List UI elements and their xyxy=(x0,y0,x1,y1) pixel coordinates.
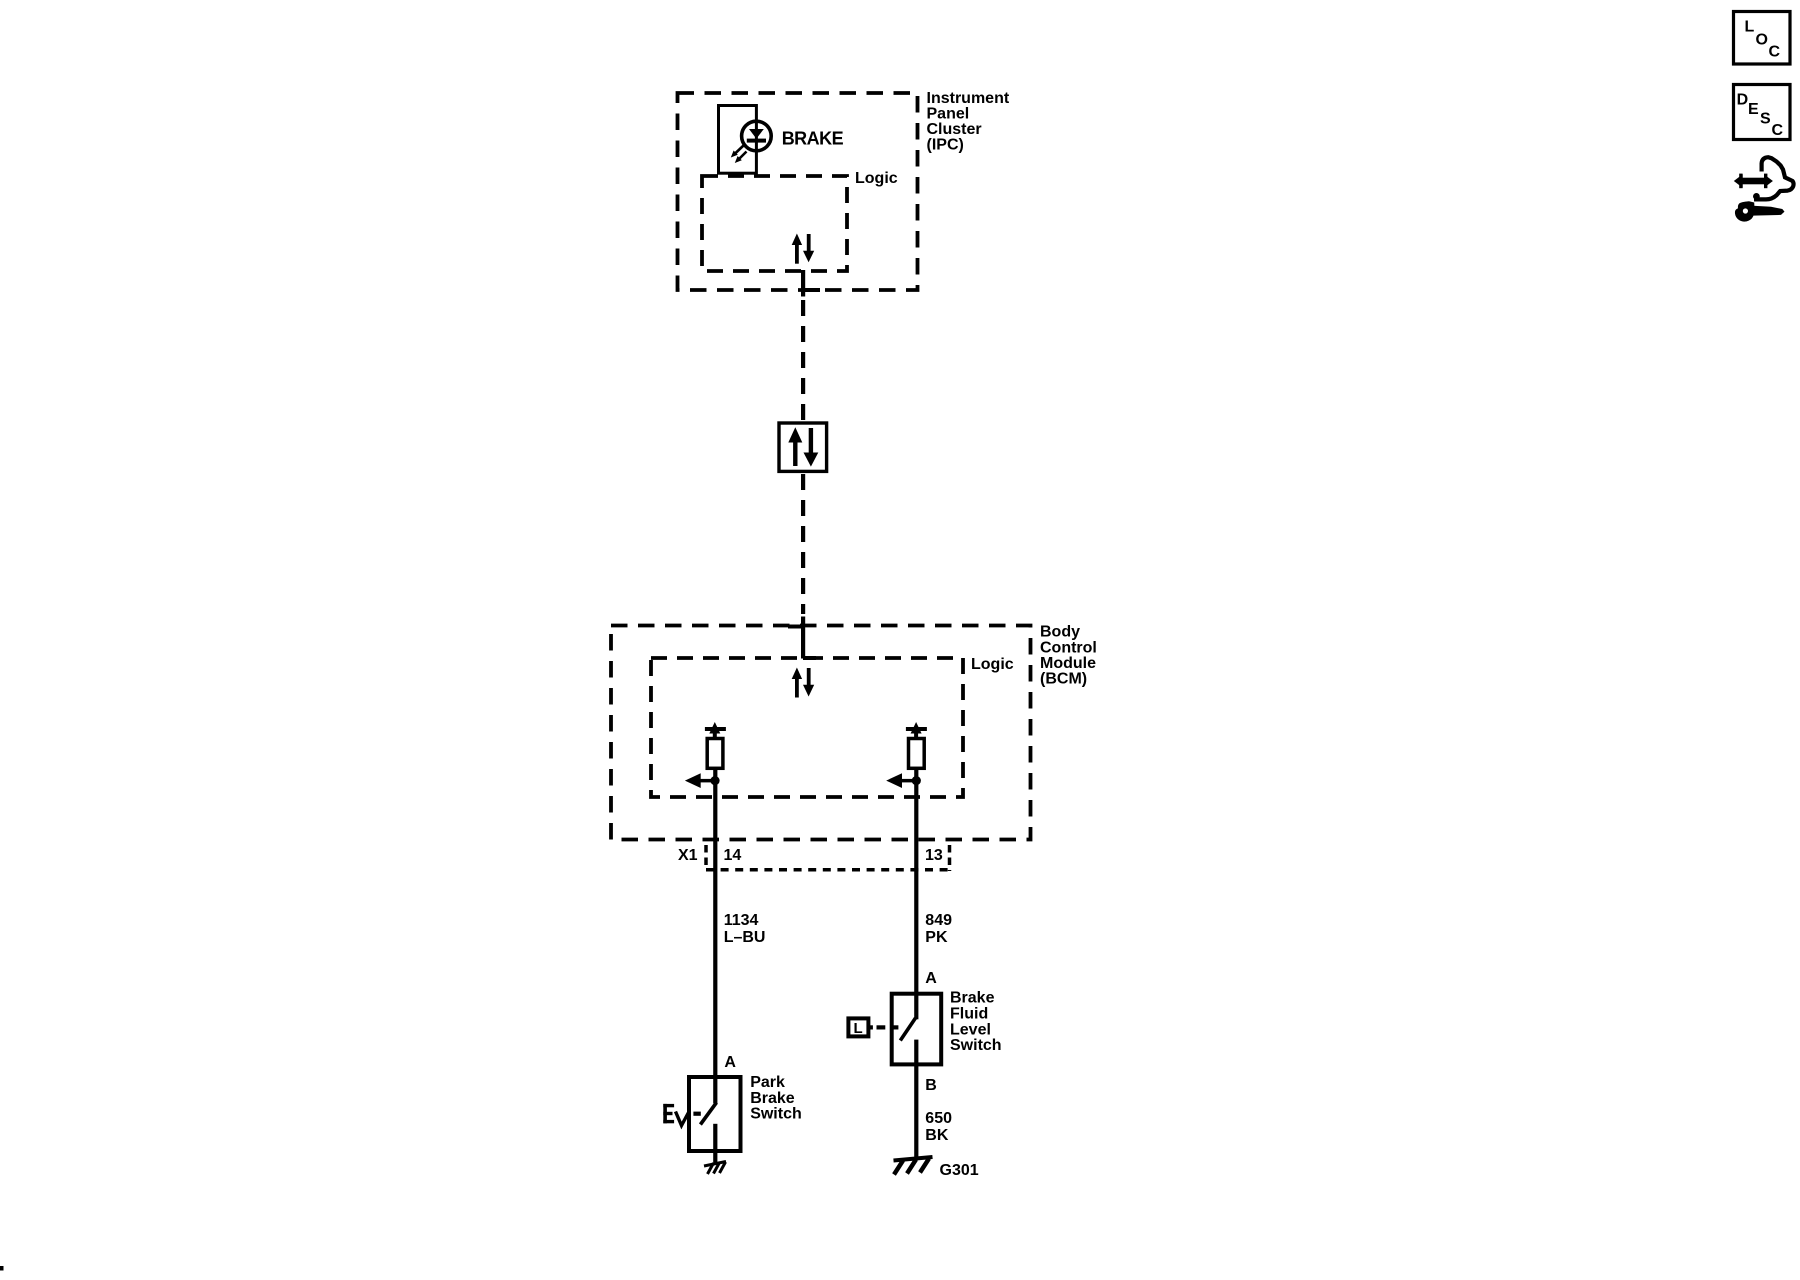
serial data link arrows xyxy=(788,427,818,466)
park brake switch lower contact xyxy=(713,1124,717,1164)
svg-text:Switch: Switch xyxy=(750,1106,802,1123)
svg-text:14: 14 xyxy=(724,847,742,864)
wire label 1134 L-BU xyxy=(724,912,766,946)
svg-text:BRAKE: BRAKE xyxy=(782,129,844,149)
page mark bottom-left xyxy=(0,1266,4,1271)
svg-text:PK: PK xyxy=(925,929,948,946)
svg-text:A: A xyxy=(724,1054,736,1071)
svg-text:849: 849 xyxy=(925,912,952,929)
svg-text:C: C xyxy=(1772,122,1784,139)
ground wire 650 xyxy=(914,1064,918,1158)
brake fluid level switch box xyxy=(892,994,942,1065)
park brake switch box xyxy=(689,1077,741,1151)
svg-text:L: L xyxy=(854,1020,863,1037)
ground G301 xyxy=(894,1157,933,1175)
navigation icon: wrench xyxy=(1735,201,1785,221)
svg-text:Control: Control xyxy=(1040,639,1097,656)
svg-text:Switch: Switch xyxy=(950,1037,1002,1054)
svg-text:S: S xyxy=(1760,111,1771,128)
svg-text:(BCM): (BCM) xyxy=(1040,671,1087,688)
pull-up resistor left: arrow to supply xyxy=(709,722,720,734)
svg-text:D: D xyxy=(1737,92,1749,109)
svg-text:Cluster: Cluster xyxy=(927,121,982,138)
svg-text:Fluid: Fluid xyxy=(950,1006,988,1023)
IPC Logic dashed box xyxy=(702,176,847,271)
svg-text:Brake: Brake xyxy=(950,990,995,1007)
park brake switch blade xyxy=(700,1103,716,1125)
resistor R right xyxy=(909,739,925,769)
DESC button box xyxy=(1734,85,1791,140)
serial data link box xyxy=(779,423,827,471)
svg-text:X1: X1 xyxy=(678,847,698,864)
svg-text:B: B xyxy=(925,1077,937,1094)
svg-text:L–BU: L–BU xyxy=(724,929,766,946)
serial data wire (dashed, lower) xyxy=(801,474,805,614)
wire label 849 PK xyxy=(925,912,952,946)
svg-text:Park: Park xyxy=(750,1074,785,1091)
wire 849 (right vertical) xyxy=(914,768,918,1019)
svg-text:Level: Level xyxy=(950,1021,991,1038)
serial data arrows (IPC logic) xyxy=(792,234,815,264)
park brake switch label xyxy=(750,1074,802,1123)
svg-text:O: O xyxy=(1756,31,1768,48)
park brake actuator symbol E xyxy=(663,1104,688,1129)
LOC button box xyxy=(1734,12,1791,65)
navigation icon: double arrow xyxy=(1734,174,1773,189)
svg-text:13: 13 xyxy=(925,847,943,864)
BCM label xyxy=(1040,624,1097,688)
svg-text:A: A xyxy=(925,970,937,987)
level sensor dashed link xyxy=(877,1025,899,1029)
svg-text:650: 650 xyxy=(925,1110,952,1127)
svg-text:(IPC): (IPC) xyxy=(927,137,964,154)
serial data wire (dashed, upper) xyxy=(801,300,805,422)
IPC pin tick xyxy=(803,288,820,292)
signal arrow left xyxy=(699,779,715,783)
svg-text:BK: BK xyxy=(925,1127,949,1144)
actuator dashed link xyxy=(693,1112,700,1116)
fluid level switch lower contact xyxy=(914,1040,918,1065)
fluid level switch blade xyxy=(900,1018,915,1041)
pull-up resistor right: arrow to supply xyxy=(911,722,922,734)
svg-text:C: C xyxy=(1769,44,1781,61)
BCM outer dashed box xyxy=(611,626,1031,840)
BCM Logic dashed box xyxy=(651,658,963,797)
brake fluid level switch label xyxy=(950,990,1002,1054)
BCM pin wire xyxy=(801,617,805,659)
BCM pin tick left xyxy=(788,625,803,629)
svg-text:E: E xyxy=(1748,101,1759,118)
svg-text:Instrument: Instrument xyxy=(927,90,1010,107)
svg-text:Brake: Brake xyxy=(750,1090,795,1107)
LED diode symbol xyxy=(747,129,766,143)
LED light emission arrows xyxy=(731,146,747,164)
connector bracket right xyxy=(948,845,952,871)
svg-text:L: L xyxy=(1745,18,1755,35)
svg-text:1134: 1134 xyxy=(724,912,759,929)
pull-up resistor right: supply bar xyxy=(906,727,927,731)
svg-text:Module: Module xyxy=(1040,655,1096,672)
pull-up resistor left: supply bar xyxy=(705,727,726,731)
BCM pin tick right xyxy=(803,656,816,660)
wire label 650 BK xyxy=(925,1110,952,1144)
LED indicator circle xyxy=(742,121,772,151)
svg-text:Body: Body xyxy=(1040,624,1080,641)
svg-text:G301: G301 xyxy=(940,1162,979,1179)
resistor R left xyxy=(707,739,723,769)
park switch ground xyxy=(704,1162,726,1175)
IPC label xyxy=(927,90,1010,154)
svg-text:Logic: Logic xyxy=(855,170,898,187)
serial data arrows (BCM logic) xyxy=(792,668,815,698)
signal arrow right xyxy=(900,779,916,783)
level sensor L box xyxy=(848,1018,868,1037)
connector bottom dotted line xyxy=(706,868,950,872)
navigation icon: vehicle outline xyxy=(1753,157,1794,200)
level sensor stub xyxy=(868,1025,873,1029)
IPC pin wire xyxy=(801,270,805,297)
connector bracket left xyxy=(704,845,708,866)
svg-text:Panel: Panel xyxy=(927,106,970,123)
indicator lamp housing xyxy=(719,106,757,174)
wire 1134 (left vertical) xyxy=(713,768,717,1103)
svg-text:Logic: Logic xyxy=(971,656,1014,673)
junction dot right xyxy=(912,776,921,785)
junction dot left xyxy=(710,776,719,785)
IPC outer dashed box xyxy=(678,93,918,290)
